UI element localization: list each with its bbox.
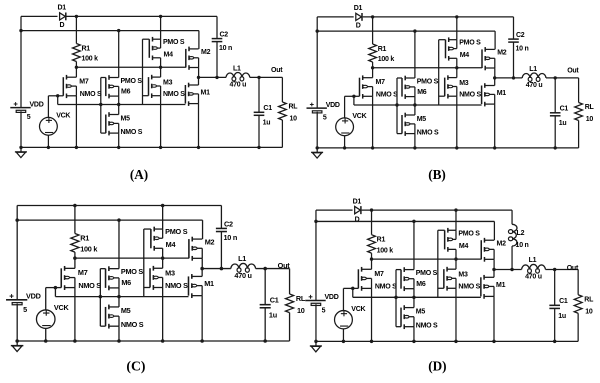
label L1: [529, 66, 537, 73]
svg-text:D1: D1: [353, 198, 362, 206]
label RL: [585, 104, 595, 111]
transistor M4: [151, 227, 163, 251]
svg-text:PMO S: PMO S: [121, 267, 144, 276]
svg-text:M1: M1: [497, 90, 507, 97]
svg-text:M4: M4: [460, 52, 470, 59]
inductor L2: [508, 210, 517, 269]
svg-text:1u: 1u: [558, 312, 566, 320]
label R1: [82, 45, 91, 52]
junction dots: [316, 15, 557, 149]
wire M7 source: [371, 288, 373, 341]
svg-text:PMO S: PMO S: [458, 229, 480, 237]
label VDD: [326, 102, 340, 109]
svg-text:PMO S: PMO S: [459, 40, 481, 47]
wire M4 drain to top rail: [455, 210, 457, 230]
svg-text:L1: L1: [529, 66, 537, 73]
label PMOS of M4: [458, 229, 480, 237]
svg-text:10: 10: [585, 308, 593, 316]
svg-text:L2: L2: [517, 229, 525, 237]
svg-text:D: D: [355, 215, 360, 223]
label M7: [376, 79, 386, 86]
label M3: [458, 271, 468, 279]
diode D1: [60, 13, 66, 21]
transistor M2: [482, 47, 495, 70]
label M4: [166, 240, 176, 249]
svg-text:R1: R1: [377, 236, 386, 244]
transistor M7: [63, 75, 76, 98]
wire left supply rail: [20, 16, 22, 147]
svg-text:M7: M7: [78, 268, 88, 277]
wire M7 drain: [372, 68, 374, 78]
label M4: [460, 52, 470, 59]
svg-text:M7: M7: [376, 79, 386, 86]
label M5: [417, 116, 427, 123]
transistor M4: [446, 37, 457, 60]
wire switch node to L1: [495, 77, 523, 79]
wire M2 source to switch node: [201, 258, 203, 268]
resistor R1: [73, 16, 81, 67]
wire bottom ground rail: [316, 340, 578, 342]
wire M2 source to switch node: [493, 259, 495, 269]
svg-text:M6: M6: [121, 278, 131, 287]
wire M7 source: [372, 96, 374, 148]
svg-text:C1: C1: [560, 106, 569, 113]
label M3: [163, 79, 173, 86]
label M6: [417, 89, 427, 96]
label R1: [377, 236, 386, 244]
resistor R1: [368, 210, 376, 259]
label VDD: [30, 101, 44, 108]
svg-text:470 u: 470 u: [526, 82, 543, 89]
label C2: [516, 32, 525, 39]
wire left supply rail: [16, 205, 18, 341]
svg-text:10: 10: [290, 116, 298, 123]
capacitor C1: [549, 269, 560, 341]
svg-text:M4: M4: [459, 242, 469, 250]
wire M3 drain up: [160, 67, 162, 77]
svg-text:100 k: 100 k: [377, 246, 394, 254]
svg-text:M1: M1: [496, 281, 506, 289]
wire M3 drain up: [162, 258, 164, 268]
resistor RL: [575, 103, 583, 148]
label PMOS of M6: [417, 78, 439, 85]
wire M5 source: [413, 327, 415, 342]
transistor M1: [481, 275, 494, 299]
svg-text:(B): (B): [428, 167, 446, 182]
wire switch node to L1: [202, 268, 231, 270]
battery VDD: [6, 294, 27, 305]
ground: [310, 341, 322, 351]
svg-text:VCK: VCK: [54, 303, 70, 312]
wire M7 source: [74, 288, 76, 341]
wire M6 source down: [413, 289, 415, 298]
label M5: [121, 115, 131, 122]
label PMOS of M4: [165, 227, 188, 236]
label 100k: [377, 246, 394, 254]
resistor R1: [369, 17, 377, 68]
label 100k: [80, 244, 98, 253]
svg-text:RL: RL: [584, 295, 594, 303]
svg-text:NMO S: NMO S: [121, 129, 143, 136]
wire M6 source down: [118, 288, 120, 297]
transistor M4: [149, 37, 160, 60]
svg-text:VDD: VDD: [326, 102, 340, 109]
ground: [311, 148, 323, 158]
label 5: [323, 115, 327, 122]
label VCK: [54, 303, 70, 312]
label 470u: [525, 273, 542, 281]
svg-text:D: D: [356, 23, 361, 30]
svg-text:M6: M6: [416, 280, 426, 288]
label 1u: [559, 120, 567, 127]
svg-text:M2: M2: [205, 237, 215, 246]
label 5: [27, 114, 31, 121]
label L2: [517, 229, 525, 237]
wire gate rail of M2 (R1 bottom net): [76, 66, 185, 68]
transistor M4: [445, 228, 456, 252]
svg-text:M7: M7: [79, 79, 89, 86]
label NMOS of M7: [375, 283, 397, 291]
battery VDD: [10, 102, 30, 112]
svg-text:10 n: 10 n: [223, 233, 237, 242]
label 10 of RL: [290, 116, 298, 123]
source VCK: [336, 96, 354, 148]
circuit B: [307, 5, 595, 182]
inductor L1: [231, 263, 256, 272]
junction dots: [15, 204, 267, 343]
wire M6 source down: [118, 96, 120, 104]
source VCK: [40, 96, 58, 148]
svg-text:M2: M2: [201, 49, 211, 56]
source VCK: [36, 288, 55, 341]
svg-text:VDD: VDD: [26, 291, 41, 300]
svg-text:M2: M2: [497, 50, 507, 57]
label 10 of RL: [585, 308, 593, 316]
label PMOS of M4: [163, 39, 185, 46]
svg-text:PMO S: PMO S: [417, 78, 439, 85]
svg-text:M3: M3: [165, 269, 175, 278]
svg-text:10: 10: [586, 116, 594, 123]
capacitor C2: [508, 17, 519, 78]
wire M1 drain up: [494, 78, 496, 86]
transistor M3: [150, 266, 163, 290]
label L1: [238, 254, 246, 263]
label 10 of RL: [297, 306, 305, 315]
junction dots: [314, 208, 556, 343]
label M7: [78, 268, 88, 277]
svg-text:R1: R1: [80, 234, 89, 243]
svg-text:NMO S: NMO S: [121, 320, 144, 329]
label D1: [354, 5, 363, 12]
wire M6 drain to VDD rail: [413, 221, 415, 269]
wire M1 drain up: [493, 269, 495, 277]
label M2: [497, 239, 507, 247]
wire top rail (boost node): [316, 209, 512, 211]
svg-text:100 k: 100 k: [378, 56, 395, 63]
wire M1 source down: [201, 296, 203, 341]
transistor M7: [61, 266, 75, 290]
svg-text:1u: 1u: [263, 120, 271, 127]
label (B) caption: [428, 167, 446, 182]
svg-text:M7: M7: [374, 270, 384, 278]
wire M3 drain up: [455, 259, 457, 269]
svg-text:M5: M5: [416, 307, 426, 315]
label VCK: [351, 305, 366, 313]
circuit A: [10, 5, 298, 182]
wire M3 source down: [456, 96, 458, 148]
svg-text:NMO S: NMO S: [459, 92, 481, 99]
label M7: [79, 79, 89, 86]
label M7: [374, 270, 384, 278]
svg-text:NMO S: NMO S: [165, 281, 188, 290]
wire L1 to Out: [545, 269, 578, 294]
label M3: [459, 80, 469, 87]
wire M5 drain up: [118, 297, 120, 307]
wire M5 drain up: [118, 105, 120, 115]
svg-text:5: 5: [27, 114, 31, 121]
svg-text:RL: RL: [296, 294, 306, 303]
wire M4 source to M2 gate rail: [456, 58, 458, 68]
junction dots: [19, 15, 260, 149]
svg-text:NMO S: NMO S: [375, 283, 397, 291]
wire VCK net to gates: [48, 96, 185, 105]
label M5: [416, 307, 426, 315]
label NMOS of M3: [163, 91, 185, 98]
wire switch node to L1: [494, 268, 522, 270]
transistor M1: [188, 274, 202, 298]
wire M1 source down: [493, 296, 495, 341]
label 10n of L2: [516, 241, 529, 249]
capacitor C1: [254, 77, 265, 147]
label D: [60, 22, 65, 29]
label 1u: [269, 310, 277, 319]
svg-text:M5: M5: [121, 306, 131, 315]
resistor RL: [285, 294, 293, 341]
wire gate rail of M2 (R1 bottom net): [373, 67, 483, 69]
svg-text:Out: Out: [567, 68, 579, 75]
label 10n of C2: [516, 46, 529, 53]
svg-text:M3: M3: [458, 271, 468, 279]
svg-text:R1: R1: [378, 46, 387, 53]
svg-text:VCK: VCK: [56, 113, 70, 120]
label 100k: [378, 56, 395, 63]
label VCK: [352, 113, 366, 120]
label M6: [416, 280, 426, 288]
label M2: [205, 237, 215, 246]
transistor M6: [106, 75, 119, 98]
svg-text:5: 5: [322, 306, 326, 314]
svg-text:470 u: 470 u: [234, 271, 251, 280]
transistor M2: [189, 237, 202, 261]
svg-text:PMO S: PMO S: [163, 39, 185, 46]
svg-text:(D): (D): [428, 358, 446, 373]
label PMOS of M6: [121, 78, 143, 85]
svg-text:NMO S: NMO S: [80, 91, 102, 98]
label M1: [496, 281, 506, 289]
capacitor C2: [212, 16, 223, 77]
label NMOS of M3: [458, 283, 480, 291]
svg-text:10: 10: [297, 306, 305, 315]
label D: [355, 215, 360, 223]
label NMOS of M7: [376, 92, 398, 99]
svg-text:5: 5: [323, 115, 327, 122]
label NMOS of M7: [80, 91, 102, 98]
wire VDD rail: [17, 220, 202, 239]
wire top rail (boost node): [317, 16, 513, 18]
svg-text:M1: M1: [204, 279, 214, 288]
wire M4 drain to top rail: [160, 16, 162, 39]
svg-text:PMO S: PMO S: [121, 78, 143, 85]
wire M5 drain up: [414, 105, 416, 115]
wire bottom ground rail: [317, 147, 578, 149]
wire gate rail of M2 (R1 bottom net): [372, 258, 482, 260]
label D1: [353, 198, 362, 206]
wire M5 source: [414, 134, 416, 148]
svg-text:M3: M3: [163, 79, 173, 86]
svg-text:C2: C2: [220, 32, 229, 39]
wire M7 source: [75, 96, 77, 148]
label NMOS of M5: [121, 129, 143, 136]
transistor M7: [360, 75, 373, 98]
label 470u: [526, 82, 543, 89]
wire left supply rail: [315, 210, 317, 341]
transistor M2: [186, 47, 199, 70]
wire M7 drain: [74, 258, 76, 268]
svg-text:470 u: 470 u: [230, 81, 247, 88]
svg-text:RL: RL: [585, 104, 595, 111]
diode D1: [355, 206, 361, 214]
wire M3 drain up: [456, 68, 458, 78]
label C1: [270, 295, 279, 304]
label 10n of C2: [219, 45, 232, 52]
label C1: [559, 297, 568, 305]
wire M5 M6 gate column: [101, 78, 106, 134]
capacitor C2: [216, 205, 227, 268]
svg-text:R1: R1: [82, 45, 91, 52]
wire M5 M6 gate column: [100, 269, 105, 327]
svg-text:100 k: 100 k: [80, 244, 98, 253]
wire M3 M4 gate column: [438, 230, 445, 297]
wire VCK net to gates: [343, 288, 480, 297]
label NMOS of M3: [459, 92, 481, 99]
label M1: [204, 279, 214, 288]
svg-text:VCK: VCK: [352, 113, 366, 120]
wire M7 drain: [75, 67, 77, 77]
label M6: [121, 89, 131, 96]
wire VCK net to gates: [345, 96, 482, 105]
svg-text:RL: RL: [289, 104, 299, 111]
label Out: [278, 261, 291, 270]
label PMOS of M4: [459, 40, 481, 47]
svg-text:PMO S: PMO S: [416, 269, 438, 277]
label R1: [80, 234, 89, 243]
wire VDD rail: [317, 31, 495, 49]
label Out: [567, 264, 579, 272]
wire M5 M6 gate column: [397, 78, 402, 134]
circuit C: [6, 204, 306, 375]
label 5: [322, 306, 326, 314]
wire M1 drain up: [201, 269, 203, 277]
transistor M2: [481, 238, 494, 262]
label 470u: [234, 271, 251, 280]
transistor M1: [185, 83, 198, 106]
label L1: [529, 256, 537, 264]
label (A) caption: [130, 167, 148, 182]
wire M5 source: [118, 133, 120, 147]
svg-text:D1: D1: [58, 5, 67, 12]
label M4: [164, 52, 174, 59]
capacitor C1: [550, 78, 561, 148]
svg-text:L1: L1: [238, 254, 246, 263]
label 100k: [82, 56, 99, 63]
label NMOS of M5: [416, 321, 438, 329]
label M1: [201, 89, 211, 96]
svg-text:D1: D1: [354, 5, 363, 12]
svg-text:NMO S: NMO S: [416, 321, 438, 329]
battery VDD: [307, 103, 327, 113]
label 10n of C2: [223, 233, 237, 242]
wire L1 to Out: [546, 78, 579, 103]
label M1: [497, 90, 507, 97]
label PMOS of M6: [416, 269, 438, 277]
svg-text:100 k: 100 k: [82, 56, 99, 63]
label PMOS of M6: [121, 267, 144, 276]
svg-text:5: 5: [23, 305, 27, 314]
svg-text:C1: C1: [270, 295, 279, 304]
label D: [356, 23, 361, 30]
svg-text:M2: M2: [497, 239, 507, 247]
wire M2 source to switch node: [198, 68, 200, 78]
resistor R1: [71, 205, 79, 258]
label L1: [233, 65, 241, 72]
transistor M6: [402, 76, 415, 99]
label M3: [165, 269, 175, 278]
svg-text:NMO S: NMO S: [458, 283, 480, 291]
svg-text:M5: M5: [121, 115, 131, 122]
label RL: [289, 104, 299, 111]
label RL: [296, 294, 306, 303]
svg-text:L1: L1: [529, 256, 537, 264]
svg-text:VDD: VDD: [324, 293, 338, 301]
transistor M5: [106, 305, 119, 329]
source VCK: [335, 288, 353, 341]
transistor M5: [106, 112, 119, 135]
transistor M6: [106, 266, 119, 290]
inductor L1: [226, 72, 250, 81]
wire M4 source to M2 gate rail: [162, 248, 164, 258]
svg-text:C1: C1: [263, 105, 272, 112]
wire M5 source: [118, 326, 120, 341]
svg-text:VDD: VDD: [30, 101, 44, 108]
label RL: [584, 295, 594, 303]
label (D) caption: [428, 358, 446, 373]
svg-text:Out: Out: [567, 264, 579, 272]
wire M3 source down: [455, 288, 457, 341]
wire M3 M4 gate column: [439, 40, 446, 105]
svg-text:M4: M4: [166, 240, 176, 249]
svg-text:NMO S: NMO S: [78, 281, 101, 290]
wire M4 source to M2 gate rail: [160, 58, 162, 68]
svg-text:VCK: VCK: [351, 305, 366, 313]
ground: [11, 341, 24, 352]
wire M3 M4 gate column: [143, 39, 150, 104]
label C1: [263, 105, 272, 112]
transistor M5: [402, 113, 415, 136]
svg-text:Out: Out: [278, 261, 291, 270]
label 5: [23, 305, 27, 314]
wire VDD rail: [316, 221, 494, 240]
svg-text:Out: Out: [271, 67, 283, 74]
